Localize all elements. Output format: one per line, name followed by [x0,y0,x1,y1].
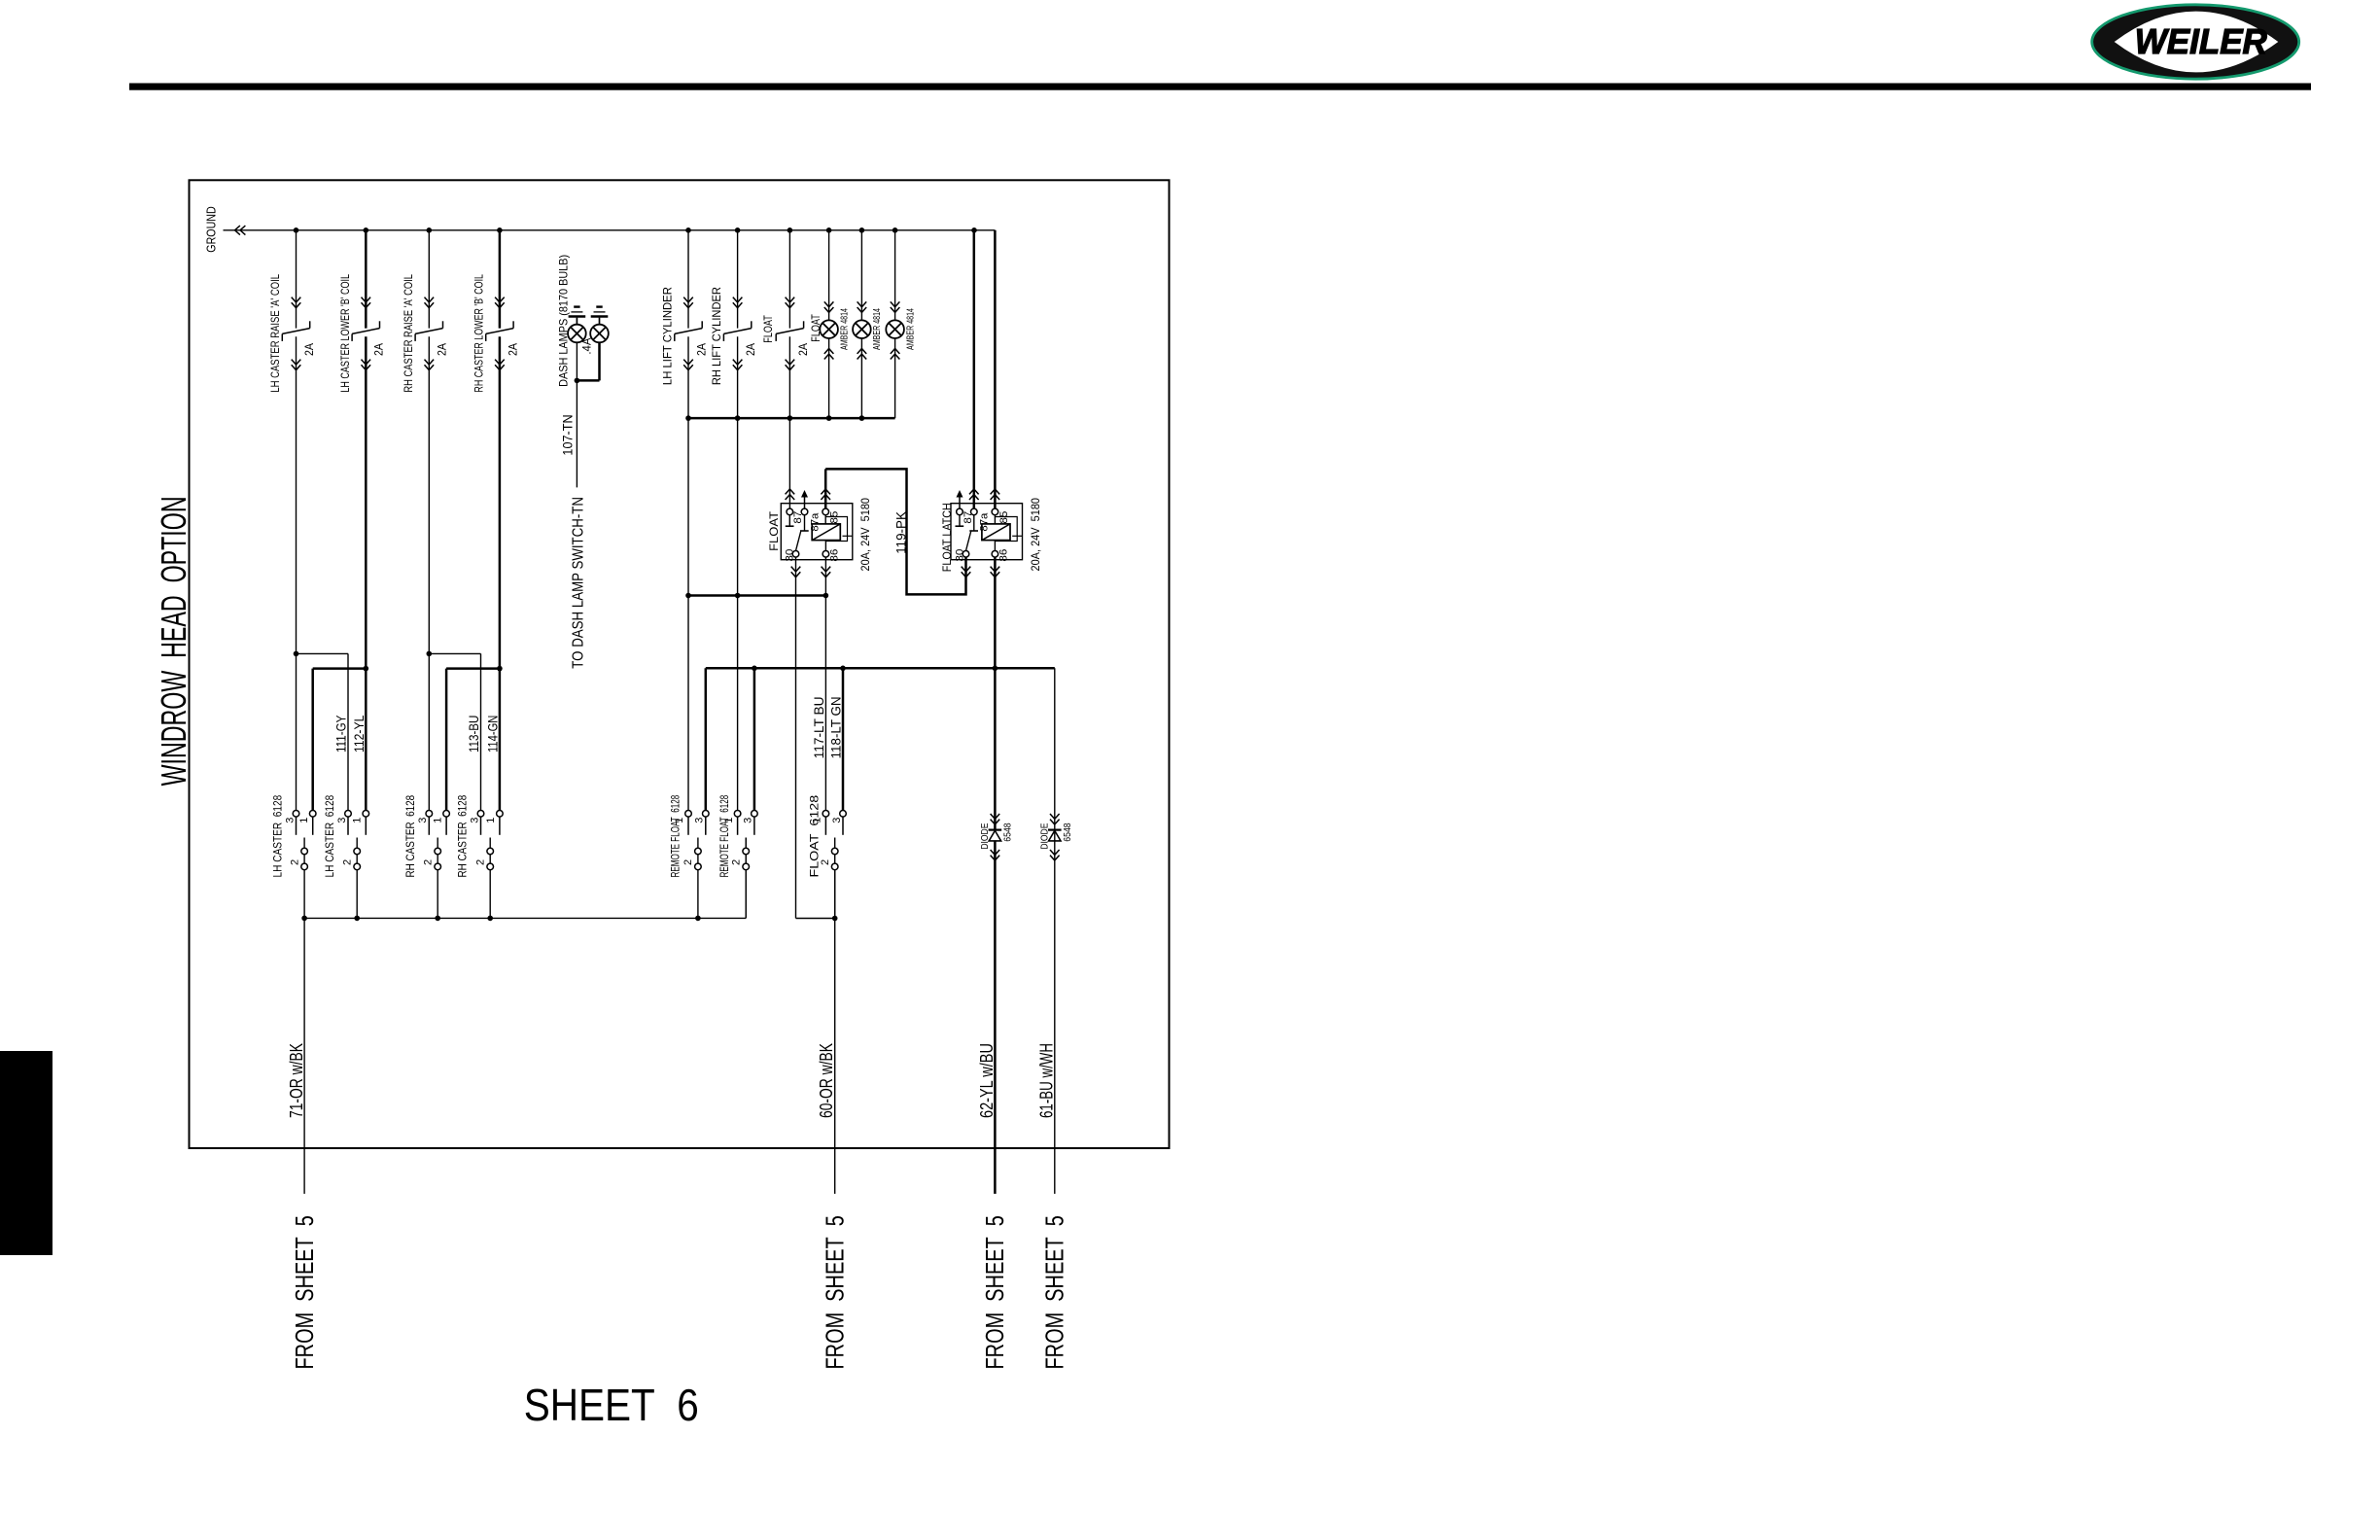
svg-text:71-OR w/BK: 71-OR w/BK [287,1043,306,1118]
relay FLOAT coil [812,524,840,541]
wire rail drop to FLOAT switch pin 3 [842,668,845,810]
wire AMBER lamp 3 upper segment [894,230,896,321]
wire LH caster raise column lower segment [296,336,297,810]
svg-text:DIODE: DIODE [979,823,991,850]
lamp FLOAT lamp AMBER 4814 [820,320,838,338]
wire FLOAT LATCH pin 85 to ground bus [994,230,997,508]
relay FLOAT LATCH pin 87a terminal [971,508,978,515]
wire dash lamp 2 drop [598,342,601,380]
svg-text:1: 1 [432,818,443,823]
connector chevrons below diode 2 [1050,850,1060,855]
wire rail drop to remote float 2 pin 3 [753,668,756,810]
junction ground bus / float lamp column [826,227,832,233]
connector chevrons upper on FLOAT breaker column [786,297,795,302]
junction lamp bus / RH lift column [735,415,741,421]
svg-text:20A, 24V 5180: 20A, 24V 5180 [858,498,872,572]
diode D2 6548 [1048,828,1062,830]
connector chevrons upper on FLOAT lamp [824,301,834,306]
svg-text:62-YL w/BU: 62-YL w/BU [977,1043,997,1118]
svg-text:60-OR w/BK: 60-OR w/BK [817,1043,836,1118]
wire REMOTE FLOAT pin 2 [697,838,699,919]
svg-text:2A: 2A [436,343,449,356]
svg-text:FROM SHEET 5: FROM SHEET 5 [982,1215,1009,1369]
relay FLOAT suppression element [825,517,847,542]
relay FLOAT coil connection to pin 85 [824,515,826,524]
relay FLOAT LATCH fixed contact 87 stub [959,515,961,527]
junction jog / FLOAT pin 2 column [832,916,838,922]
svg-text:1: 1 [298,818,310,823]
relay FLOAT pin 87 terminal [787,508,793,515]
wire RH LIFT CYLINDER column upper segment [737,230,739,329]
connector RH CASTER pin 1 terminal [497,811,504,818]
ground bus wire [224,229,996,231]
relay FLOAT LATCH pin 85 terminal [992,508,998,515]
breaker LH LIFT CYLINDER 2A [701,321,703,328]
connector RH CASTER pin 1 terminal [443,811,450,818]
svg-text:2A: 2A [506,343,519,356]
connector RH CASTER pin 3 terminal [477,811,484,818]
connector RH CASTER pin 3 terminal [426,811,433,818]
wire FLOAT lamp upper segment [828,230,830,321]
svg-text:LH LIFT CYLINDER: LH LIFT CYLINDER [661,287,675,385]
svg-text:87: 87 [792,511,804,524]
breaker RH LIFT CYLINDER 2A [751,321,752,328]
junction ground bus / amber lamp 2 column [859,227,865,233]
connector REMOTE FLOAT pin 1 terminal [685,811,692,818]
wire FLOAT pin 2 column down (60-OR w/BK) [834,870,836,1194]
wire RH CASTER pin 2 [489,838,491,919]
svg-text:2A: 2A [302,343,316,356]
svg-text:85: 85 [998,511,1010,524]
relay FLOAT LATCH coil connection to pin 86 [994,541,996,551]
svg-text:3: 3 [831,818,843,823]
junction RH caster raise crossover [427,651,433,657]
wire jog to FLOAT switch pin 2 column [796,918,835,920]
svg-text:3: 3 [694,818,706,823]
junction lamp bus / LH lift column [685,415,691,421]
wire 107-TN to dash lamp switch [576,342,577,487]
connector LH CASTER pin 2 terminals [354,848,361,855]
wire LH CASTER pin 2 [356,838,358,919]
relay FLOAT fixed contact 87 stub [788,515,790,527]
svg-text:2A: 2A [744,343,757,356]
svg-text:6548: 6548 [1002,822,1014,841]
relay FLOAT pin 87a terminal [801,508,808,515]
junction ground bus / LH lift column [685,227,691,233]
lamp DASH LAMP 2 (8170 bulb) [590,325,609,343]
connector chevrons lower on LH CASTER RAISE &#39;A&#39; COIL column [292,360,301,365]
relay FLOAT body outline [781,504,853,560]
connector chevrons upper on LH CASTER RAISE &#39;A&#39; COIL column [292,297,301,302]
relay FLOAT LATCH switch arm from pin 30 [966,532,971,551]
svg-text:3: 3 [469,818,480,823]
svg-text:61-BU w/WH: 61-BU w/WH [1037,1043,1057,1118]
wire REMOTE FLOAT pin 3 stub [705,817,707,835]
svg-text:FLOAT: FLOAT [767,510,781,551]
connector chevrons upper on AMBER lamp 2 [857,301,867,306]
relay FLOAT switch arm from pin 30 [796,532,801,551]
relay FLOAT coil connection to pin 86 [824,541,826,551]
connector chevrons upper on LH CASTER LOWER &#39;B&#39; COIL column [362,297,371,302]
connector FLOAT pin 3 terminal [840,811,847,818]
connector chevrons lower on RH CASTER RAISE &#39;A&#39; COIL column [425,360,435,365]
svg-text:2A: 2A [796,343,810,356]
svg-text:2: 2 [289,859,300,865]
connector REMOTE FLOAT pin 2 terminals [695,848,702,855]
wire AMBER lamp 2 lower segment [860,338,862,418]
connector chevrons lower on AMBER lamp 3 [891,349,900,354]
relay FLOAT LATCH pin 87 arrow stub [959,495,961,508]
svg-text:114-GN: 114-GN [484,716,500,752]
connector LH CASTER pin 1 terminal [309,811,316,818]
connector chevrons upper on AMBER lamp 3 [891,301,900,306]
wire LH CASTER RAISE &#39;A&#39; COIL column upper segment [296,230,297,329]
wire RH CASTER pin 1 stub [445,817,447,835]
wire RH CASTER LOWER &#39;B&#39; COIL column upper segment [499,230,502,329]
svg-text:2A: 2A [694,343,708,356]
svg-text:FLOAT: FLOAT [809,314,822,342]
wire FLOAT breaker column to relay 87 [788,336,790,508]
ground bus arrow [235,226,240,235]
wire LH caster lower column lower segment [365,336,367,810]
wire LH CASTER LOWER &#39;B&#39; COIL column upper segment [365,230,367,329]
Weiler logo [2092,5,2299,79]
junction LH caster raise crossover [294,651,299,657]
wire LH LIFT CYLINDER column lower segment [687,336,689,810]
rail lift pin 1 wire [688,594,825,597]
breaker LH CASTER LOWER &#39;B&#39; COIL 2A [379,321,381,328]
wire remote float 2 pin 2 to bus corner [745,838,747,919]
svg-text:30: 30 [955,549,966,562]
wire 71-OR w/BK down to sheet 5 [303,918,305,1194]
connector LH CASTER pin 1 terminal [363,811,369,818]
svg-text:AMBER 4814: AMBER 4814 [904,308,916,350]
svg-text:FLOAT: FLOAT [761,315,775,343]
connector chevrons below relay FLOAT LATCH pin 30 [962,567,971,572]
svg-text:6548: 6548 [1062,822,1073,841]
wire FLOAT LATCH pin 86 down to diode 1 [994,557,997,828]
connector REMOTE FLOAT pin 3 terminal [752,811,758,818]
connector chevrons upper on LH LIFT CYLINDER column [683,297,693,302]
relay FLOAT fixed contact 87a stub [804,515,806,531]
svg-text:85: 85 [829,511,841,524]
relay FLOAT LATCH suppression element [996,517,1018,542]
svg-text:RH CASTER RAISE 'A' COIL: RH CASTER RAISE 'A' COIL [402,274,415,393]
connector chevrons lower on FLOAT breaker column [786,360,795,365]
connector RH CASTER pin 2 terminals [487,848,494,855]
connector chevrons below diode 1 [991,850,1000,855]
relay FLOAT pin 30 terminal [792,551,799,558]
connector chevrons lower on FLOAT lamp [824,349,834,354]
ground symbol above dash lamp 1 [574,305,579,307]
left page tab [0,1051,52,1255]
wire FLOAT LATCH pin 87a to ground bus [973,230,976,508]
svg-text:87: 87 [962,511,974,524]
junction pin-2 bus / LH caster 1 pin 2 [301,916,307,922]
svg-text:FROM SHEET 5: FROM SHEET 5 [292,1215,319,1369]
wire REMOTE FLOAT pin 1 stub [687,817,689,835]
svg-text:3: 3 [336,818,348,823]
junction pin-2 bus / RH caster 1 pin 2 [435,916,440,922]
svg-text:LH CASTER 6128: LH CASTER 6128 [323,795,336,878]
junction ground bus / float latch 87a column [971,227,977,233]
svg-text:AMBER 4814: AMBER 4814 [838,308,850,350]
junction ground bus / amber lamp 3 column [892,227,898,233]
svg-text:.4A: .4A [580,338,594,355]
junction ground bus / LH caster raise column [294,227,299,233]
wire crossover RH lower to RH caster 1 pin 1 [446,667,500,670]
wire crossover LH raise to LH caster 2 pin 3 [297,652,349,654]
schematic border [190,180,1170,1148]
relay FLOAT LATCH pin 87 terminal [957,508,963,515]
ground symbol above dash lamp 2 [596,305,602,307]
svg-text:30: 30 [785,549,796,562]
connector RH CASTER pin 2 terminals [435,848,441,855]
connector chevrons below relay FLOAT LATCH pin 86 [991,567,1000,572]
wire RH CASTER RAISE &#39;A&#39; COIL column upper segment [428,230,430,329]
wire below diode 1 (62-YL w/BU) [994,841,997,1194]
bus connector pin-2 return [304,917,746,919]
junction ground bus / RH caster lower column [497,227,503,233]
wire rail drop to remote float 1 pin 3 [705,668,708,810]
svg-text:2: 2 [341,859,353,865]
connector chevrons above relay FLOAT pin 87 [786,489,795,494]
relay FLOAT pin 85 terminal [822,508,829,515]
junction pin1 rail / RH lift column [735,593,741,599]
junction pin-2 bus / remote float 1 pin 2 [695,916,701,922]
junction LH caster lower crossover [364,666,369,672]
svg-text:RH CASTER 6128: RH CASTER 6128 [455,795,469,878]
svg-text:118-LT GN: 118-LT GN [828,696,844,758]
svg-text:DASH LAMPS (8170 BULB): DASH LAMPS (8170 BULB) [557,255,571,387]
relay FLOAT LATCH pin 30 terminal [962,551,969,558]
svg-text:LH CASTER 6128: LH CASTER 6128 [270,795,284,878]
connector LH CASTER pin 3 terminal [293,811,299,818]
connector chevrons above relay FLOAT LATCH pin 87a [969,489,979,494]
connector chevrons above diode 1 [991,814,1000,819]
svg-text:FLOAT LATCH: FLOAT LATCH [940,503,954,572]
connector chevrons above diode 2 [1050,814,1060,819]
wire LH CASTER pin 2 [303,838,305,919]
lamp bus wire [688,417,895,420]
relay FLOAT LATCH pin 86 terminal [992,551,998,558]
wire relay FLOAT pin 86 down to FLOAT switch pin 1 [824,557,826,810]
wire FLOAT pin 3 stub [842,817,844,835]
wire REMOTE FLOAT pin 2 [745,838,747,919]
svg-text:SHEET 6: SHEET 6 [524,1380,699,1430]
wire rail drop to diode 2 [1054,668,1056,1194]
svg-text:DIODE: DIODE [1039,823,1051,850]
svg-text:2: 2 [820,859,831,865]
svg-text:86: 86 [998,549,1010,562]
diode D1 6548 [989,828,1002,830]
connector LH CASTER pin 3 terminal [345,811,352,818]
wire LH LIFT CYLINDER column upper segment [687,230,689,329]
svg-text:RH LIFT CYLINDER: RH LIFT CYLINDER [710,287,723,385]
connector REMOTE FLOAT pin 3 terminal [703,811,710,818]
junction pin1 rail / FLOAT pin 1 column [823,593,829,599]
svg-text:2A: 2A [372,343,386,356]
wire LH CASTER pin 3 stub [296,817,297,835]
lamp DASH LAMP 1 (8170 bulb) [568,325,586,343]
svg-text:FROM SHEET 5: FROM SHEET 5 [822,1215,849,1369]
svg-text:REMOTE FLOAT 6128: REMOTE FLOAT 6128 [717,795,731,878]
junction RH caster lower crossover [497,666,503,672]
junction rail / remote float 2 pin 3 [752,666,757,672]
connector chevrons below relay FLOAT pin 30 [791,567,801,572]
connector chevrons lower on RH CASTER LOWER &#39;B&#39; COIL column [495,360,505,365]
svg-text:107-TN: 107-TN [560,414,576,455]
relay FLOAT LATCH fixed contact 87a stub [973,515,975,531]
svg-text:GROUND: GROUND [204,206,219,252]
svg-text:2: 2 [422,859,434,865]
junction pin-2 bus / RH caster 2 pin 2 [487,916,493,922]
wire FLOAT pin 1 stub [824,817,826,835]
svg-text:AMBER 4814: AMBER 4814 [871,308,883,350]
lamp AMBER lamp 2 AMBER 4814 [853,320,871,338]
connector REMOTE FLOAT pin 2 terminals [743,848,750,855]
connector LH CASTER pin 2 terminals [301,848,308,855]
svg-text:RH CASTER LOWER 'B' COIL: RH CASTER LOWER 'B' COIL [472,274,486,393]
wire LH CASTER pin 3 stub [347,817,349,835]
junction pin1 rail / LH lift column [685,593,691,599]
junction lamp bus / amber lamp 2 [859,415,865,421]
wire crossover LH lower to LH caster 1 pin 1 [313,667,367,670]
svg-text:113-BU: 113-BU [466,716,481,752]
connector chevrons upper on RH CASTER LOWER &#39;B&#39; COIL column [495,297,505,302]
relay FLOAT pin 86 terminal [822,551,829,558]
svg-text:119-PK: 119-PK [892,510,908,553]
connector chevrons above relay FLOAT pin 85 [821,489,830,494]
lamp AMBER lamp 3 AMBER 4814 [886,320,904,338]
wire REMOTE FLOAT pin 3 stub [753,817,755,835]
svg-text:3: 3 [743,818,754,823]
wire RH caster raise column lower segment [428,336,430,810]
svg-text:RH CASTER 6128: RH CASTER 6128 [403,795,417,878]
svg-text:20A, 24V 5180: 20A, 24V 5180 [1029,498,1042,572]
svg-text:TO DASH LAMP SWITCH-TN: TO DASH LAMP SWITCH-TN [570,497,586,669]
breaker LH CASTER RAISE &#39;A&#39; COIL 2A [309,321,311,328]
svg-text:117-LT BU: 117-LT BU [811,696,826,758]
junction lamp bus / FLOAT breaker column [787,415,793,421]
wire RH CASTER pin 2 [437,838,438,919]
junction rail / FLOAT LATCH pin 86 column [993,666,998,672]
svg-text:112-YL: 112-YL [351,715,367,752]
junction pin-2 bus / LH caster 2 pin 2 [354,916,360,922]
wire 119-PK relay FLOAT 85 to FLOAT LATCH 30 [824,469,827,508]
svg-text:LH CASTER LOWER 'B' COIL: LH CASTER LOWER 'B' COIL [338,274,352,393]
wire AMBER lamp 2 upper segment [860,230,862,321]
wire REMOTE FLOAT pin 1 stub [737,817,739,835]
relay FLOAT pin 87a arrow stub [804,495,806,508]
junction dash lamp wires [575,378,580,384]
junction ground bus / LH caster lower column [364,227,369,233]
wire RH CASTER pin 3 stub [428,817,430,835]
svg-text:FROM SHEET 5: FROM SHEET 5 [1041,1215,1068,1369]
wire AMBER lamp 3 lower segment [894,338,896,418]
breaker RH CASTER LOWER &#39;B&#39; COIL 2A [512,321,514,328]
svg-text:87a: 87a [979,512,991,532]
svg-text:1: 1 [723,818,735,823]
connector chevrons below relay FLOAT pin 86 [822,567,831,572]
junction ground bus / RH caster raise column [427,227,433,233]
svg-text:87a: 87a [809,512,821,532]
svg-text:WEILER: WEILER [2135,21,2267,61]
connector chevrons lower on AMBER lamp 2 [857,349,867,354]
wire float distribution rail [706,667,1055,670]
connector chevrons upper on RH LIFT CYLINDER column [733,297,743,302]
svg-text:86: 86 [829,549,841,562]
svg-text:LH CASTER RAISE 'A' COIL: LH CASTER RAISE 'A' COIL [268,274,282,393]
connector chevrons lower on LH CASTER LOWER &#39;B&#39; COIL column [362,360,371,365]
connector chevrons above relay FLOAT LATCH pin 85 [991,489,1000,494]
svg-text:2: 2 [730,859,742,865]
wire LH CASTER pin 1 stub [312,817,314,835]
wire relay FLOAT pin 30 down [795,557,797,918]
wire FLOAT lamp lower segment [828,338,830,418]
relay FLOAT LATCH coil connection to pin 85 [994,515,996,524]
wire FLOAT breaker column upper segment [788,230,790,329]
svg-text:1: 1 [674,818,685,823]
wire RH CASTER pin 3 stub [480,817,482,835]
svg-text:3: 3 [284,818,296,823]
junction rail / FLOAT switch pin 3 [840,666,846,672]
svg-text:WINDROW HEAD OPTION: WINDROW HEAD OPTION [154,496,193,786]
svg-text:3: 3 [417,818,429,823]
junction lamp bus / float lamp [826,415,832,421]
wire FLOAT pin 2 [834,838,836,919]
junction ground bus / RH lift column [735,227,741,233]
wire RH caster lower column lower segment [499,336,502,810]
svg-text:1: 1 [812,818,823,823]
wire crossover RH raise to RH caster 2 pin 3 [429,652,480,654]
svg-text:2: 2 [474,859,486,865]
junction ground bus / float breaker column [787,227,793,233]
relay FLOAT LATCH coil [982,524,1010,541]
connector REMOTE FLOAT pin 1 terminal [734,811,741,818]
connector chevrons lower on LH LIFT CYLINDER column [683,360,693,365]
wire LH CASTER pin 1 stub [365,817,367,835]
connector FLOAT pin 1 terminal [822,811,829,818]
breaker RH CASTER RAISE &#39;A&#39; COIL 2A [442,321,444,328]
svg-text:1: 1 [352,818,364,823]
wire RH CASTER pin 1 stub [499,817,501,835]
connector chevrons upper on RH CASTER RAISE &#39;A&#39; COIL column [425,297,435,302]
svg-text:111-GY: 111-GY [333,715,349,752]
top rule [129,84,2311,90]
relay FLOAT LATCH body outline [951,504,1023,560]
svg-text:REMOTE FLOAT 6128: REMOTE FLOAT 6128 [668,795,682,878]
connector chevrons lower on RH LIFT CYLINDER column [733,360,743,365]
connector FLOAT pin 2 terminals [831,848,838,855]
breaker FLOAT 2A [803,321,805,328]
wire RH LIFT CYLINDER column lower segment [737,336,739,810]
svg-text:1: 1 [485,818,497,823]
svg-text:2: 2 [682,859,694,865]
